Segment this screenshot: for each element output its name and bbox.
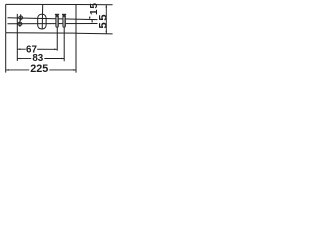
screw S1 center stroke (20, 14, 22, 20)
body outline top edge (6, 3, 76, 5)
wire line B lower horizontal (8, 23, 98, 25)
extension line left reference (16, 14, 18, 61)
screw S2 head ellipse (18, 22, 22, 25)
extension line left edge down (5, 33, 7, 73)
extension line screw A center (56, 27, 58, 50)
body outline left edge (5, 4, 7, 32)
slot obround (38, 14, 46, 29)
dimension 55 line (105, 5, 107, 34)
extension line bottom right (76, 32, 113, 35)
svg-text:225: 225 (30, 63, 48, 75)
dimension 15 tick lower (91, 20, 93, 21)
centerline vertical through slot (41, 5, 44, 30)
screw S2 center stroke (19, 20, 21, 27)
dimension 67 (17, 48, 57, 50)
dimension 15 tick upper (89, 17, 91, 19)
svg-text:55: 55 (97, 13, 109, 29)
extension line screw B center (63, 27, 65, 61)
screw S1 head ellipse (19, 16, 23, 19)
screw B vertical (62, 14, 66, 27)
extension line right edge down (75, 33, 77, 73)
screw A vertical (55, 14, 59, 27)
extension line top right (76, 4, 113, 6)
dimension 225 (6, 69, 76, 71)
wire line A upper horizontal (8, 18, 98, 20)
body outline bottom edge (6, 32, 76, 34)
dimension 83 (17, 58, 64, 60)
body outline right edge (75, 5, 77, 34)
